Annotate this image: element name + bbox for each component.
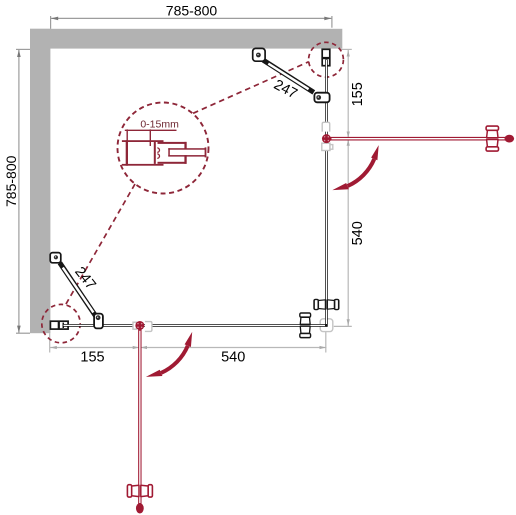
svg-text:785-800: 785-800 (166, 3, 218, 19)
svg-text:540: 540 (350, 221, 366, 245)
svg-text:785-800: 785-800 (3, 155, 19, 207)
svg-text:155: 155 (80, 349, 104, 365)
svg-text:540: 540 (221, 349, 245, 365)
svg-text:155: 155 (350, 82, 366, 106)
svg-text:0-15mm: 0-15mm (140, 119, 179, 131)
